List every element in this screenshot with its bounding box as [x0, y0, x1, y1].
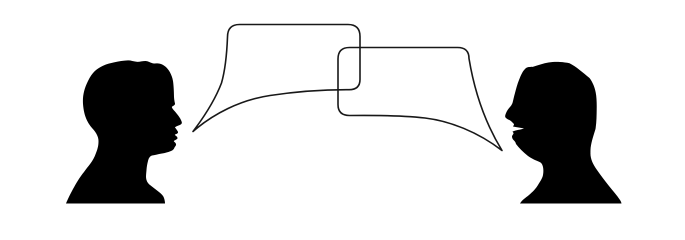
right speech bubble with tail to right head's mouth	[338, 48, 502, 151]
left speech bubble with tail to left head's mouth	[193, 25, 360, 132]
left head silhouette (man facing right)	[66, 60, 182, 203]
right head silhouette (man facing left, mouth open)	[505, 62, 621, 204]
